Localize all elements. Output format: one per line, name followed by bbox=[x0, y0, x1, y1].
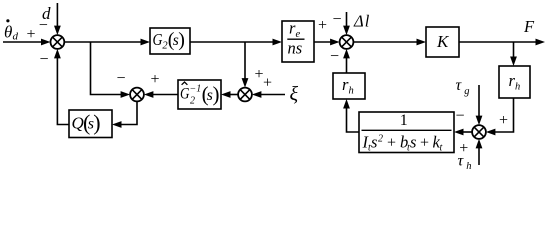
svg-text:s: s bbox=[410, 133, 416, 152]
svg-text:−: − bbox=[455, 108, 464, 125]
svg-text:G: G bbox=[180, 86, 190, 103]
svg-text:ξ: ξ bbox=[290, 83, 299, 105]
svg-text:+: + bbox=[499, 112, 508, 129]
svg-text:τ: τ bbox=[456, 77, 463, 94]
svg-text:+: + bbox=[263, 75, 272, 92]
svg-text:1: 1 bbox=[400, 112, 408, 129]
svg-text:t: t bbox=[440, 143, 443, 154]
svg-text:h: h bbox=[466, 161, 471, 172]
svg-text:−1: −1 bbox=[190, 84, 202, 95]
svg-text:): ) bbox=[178, 29, 185, 51]
svg-text:G: G bbox=[153, 30, 163, 49]
svg-text:F: F bbox=[523, 17, 535, 36]
svg-text:K: K bbox=[436, 32, 450, 51]
svg-text:−: − bbox=[330, 48, 339, 65]
svg-text:θ: θ bbox=[4, 23, 12, 42]
svg-text:g: g bbox=[464, 86, 469, 97]
svg-text:2: 2 bbox=[378, 134, 383, 145]
svg-text:+: + bbox=[26, 26, 35, 43]
svg-text:2: 2 bbox=[190, 96, 195, 107]
svg-text:−: − bbox=[39, 17, 48, 34]
svg-text:d: d bbox=[13, 31, 19, 43]
svg-text:): ) bbox=[93, 110, 100, 135]
svg-text:−: − bbox=[39, 51, 48, 68]
svg-text:Q: Q bbox=[72, 113, 84, 132]
svg-text:+: + bbox=[150, 71, 159, 88]
svg-text:+: + bbox=[387, 135, 396, 152]
svg-text:h: h bbox=[349, 86, 354, 97]
svg-text:+: + bbox=[318, 17, 327, 34]
svg-text:−: − bbox=[332, 11, 341, 28]
svg-text:+: + bbox=[420, 135, 429, 152]
svg-text:ns: ns bbox=[288, 39, 303, 58]
svg-text:Δ: Δ bbox=[353, 12, 364, 31]
svg-text:−: − bbox=[116, 70, 125, 87]
svg-text:h: h bbox=[515, 82, 520, 93]
svg-text:l: l bbox=[365, 12, 370, 31]
svg-text:s: s bbox=[371, 133, 377, 152]
svg-text:+: + bbox=[459, 140, 468, 157]
svg-text:): ) bbox=[213, 82, 220, 106]
